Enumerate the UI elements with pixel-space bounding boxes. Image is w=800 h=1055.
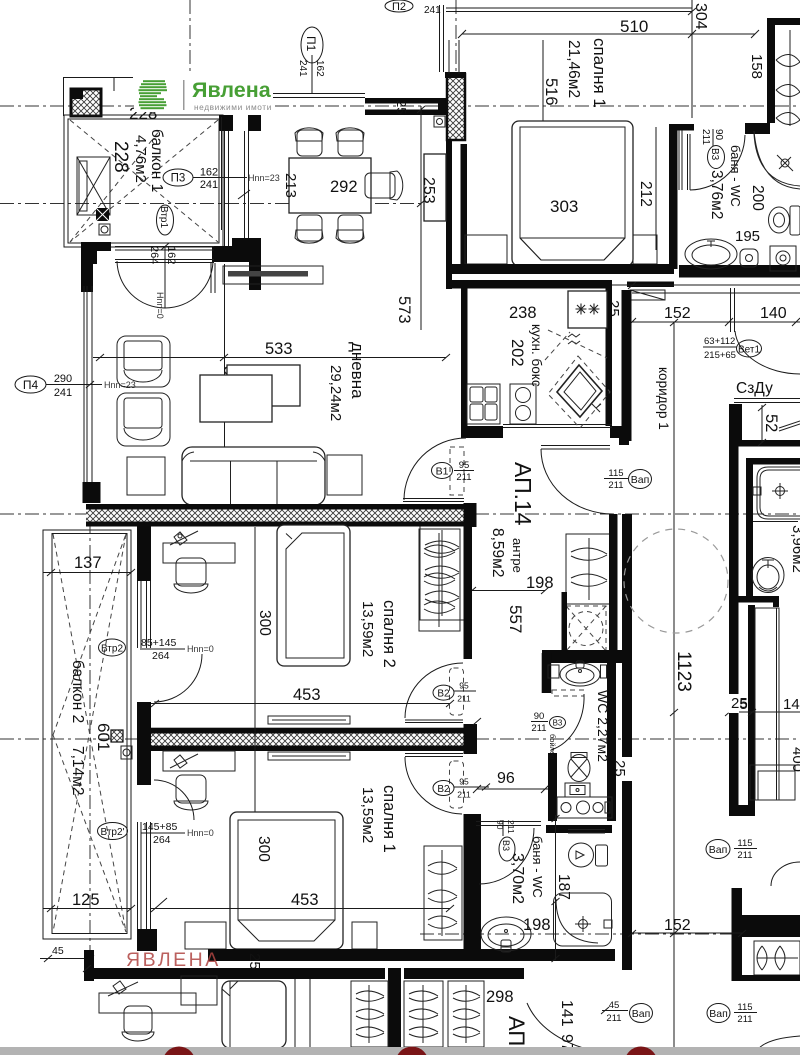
bedroom1 west wall strip <box>461 144 468 272</box>
szdu top double line <box>734 399 800 403</box>
armchair 2 <box>117 393 170 446</box>
corridor shoe shelf <box>630 290 665 300</box>
door B2 bedroom2 dashed leaf <box>450 668 464 715</box>
balcony1 outer rect <box>64 115 223 247</box>
Vet1 ellipse <box>737 340 762 357</box>
cap above hatch band <box>445 72 466 78</box>
svg-text:спалня 2: спалня 2 <box>380 600 398 668</box>
hatched wall band vertical top <box>447 74 465 140</box>
П4 ellipse <box>15 376 46 393</box>
shaft tall rect <box>755 608 779 800</box>
bathtub faucet <box>776 487 785 496</box>
svg-text:45: 45 <box>609 1000 620 1011</box>
svg-text:96: 96 <box>497 770 515 787</box>
sideboard inner bar <box>228 271 308 277</box>
lower bed fold <box>222 981 238 1048</box>
band2 bottom border <box>150 746 464 752</box>
dining east wall strip <box>446 140 452 289</box>
svg-text:Вап: Вап <box>709 844 728 856</box>
svg-text:П1: П1 <box>304 36 318 52</box>
antre wardrobe left <box>420 526 464 620</box>
band2 fill <box>150 734 464 746</box>
bath bottom wall <box>679 265 800 278</box>
lower wardrobe C <box>448 981 484 1047</box>
svg-text:211: 211 <box>531 723 546 734</box>
nightstand right <box>633 235 657 264</box>
dim line 198 <box>468 587 549 594</box>
svg-text:211: 211 <box>608 480 623 491</box>
svg-text:25: 25 <box>731 695 748 712</box>
tick mark on 533 mid <box>220 354 228 361</box>
wc square sink <box>565 783 590 797</box>
ticks bottom 45 line <box>83 965 91 972</box>
tick on 187 segment <box>552 898 560 905</box>
svg-text:211: 211 <box>457 790 471 800</box>
corridor top wall left piece <box>627 282 674 288</box>
cooktop 2 circles unit <box>510 384 536 424</box>
Vap ellipse right mid <box>706 840 730 859</box>
svg-text:85+145: 85+145 <box>141 637 176 649</box>
washing machine bath1 <box>770 246 796 271</box>
svg-text:115: 115 <box>608 468 623 479</box>
armchair 1 <box>117 336 170 387</box>
threshold below B1 <box>403 499 464 502</box>
kitchen west wall <box>461 288 468 426</box>
desk bedroom2 <box>163 543 235 563</box>
tick marks 453 lines left <box>151 700 167 912</box>
wall stub right of balcony top B <box>248 115 261 131</box>
svg-text:Вап: Вап <box>709 1008 728 1020</box>
svg-text:B2: B2 <box>437 784 450 795</box>
sink diamond solid <box>557 365 602 417</box>
bath2 west wall <box>746 458 753 602</box>
svg-text:241: 241 <box>424 5 441 16</box>
shower faucet <box>781 159 789 167</box>
notch 25 corridor west wall <box>622 757 633 781</box>
svg-text:Втр2': Втр2' <box>101 827 125 838</box>
svg-text:158: 158 <box>748 54 765 79</box>
bath3 threshold <box>476 822 541 826</box>
door center line <box>164 246 166 308</box>
dim vline x255 <box>254 527 256 945</box>
svg-text:Вет1: Вет1 <box>738 345 760 356</box>
bed 303 outer <box>512 121 633 266</box>
band2 left hatch square <box>111 730 123 742</box>
svg-text:200: 200 <box>749 185 766 211</box>
lower apt left wall vertical <box>84 950 94 981</box>
svg-text:187: 187 <box>555 874 572 900</box>
logo 228 occluder <box>134 74 273 112</box>
desk bedroom1 <box>163 751 235 771</box>
wardrobe bottom right <box>754 941 800 975</box>
wc east wall <box>607 653 616 821</box>
antre wardrobe left hangers <box>425 530 459 616</box>
svg-text:162: 162 <box>314 60 325 77</box>
svg-text:B2: B2 <box>437 688 450 699</box>
svg-text:162: 162 <box>200 167 218 179</box>
svg-text:95: 95 <box>459 460 470 471</box>
B1 door dashed leaf <box>450 447 464 495</box>
svg-text:СзДу: СзДу <box>736 380 773 397</box>
chair bottom right <box>336 215 364 243</box>
red circle 2 <box>396 1047 429 1055</box>
svg-text:211: 211 <box>456 472 471 483</box>
svg-text:B3: B3 <box>709 148 720 161</box>
bath3 door arc <box>479 828 534 884</box>
french door left arc <box>117 261 165 308</box>
svg-text:453: 453 <box>293 686 321 704</box>
west window bedroom1 <box>138 822 151 929</box>
nightstand bed1 left <box>185 922 226 949</box>
shower enclosure arc <box>754 131 800 189</box>
Yavlena logo stripes <box>139 80 168 109</box>
gray band bottom <box>0 1047 800 1055</box>
shower faucet bath3 <box>575 916 612 932</box>
big entry door arc lower <box>527 1003 621 1053</box>
hob symbols <box>576 304 600 315</box>
П1 leader vertical <box>311 55 313 93</box>
svg-text:B3: B3 <box>553 719 563 728</box>
wc sink <box>560 661 600 686</box>
svg-text:304: 304 <box>692 3 709 30</box>
svg-text:B1: B1 <box>436 466 449 478</box>
fridge 4sq unit <box>467 384 500 424</box>
corner wall block dining SW <box>232 238 261 290</box>
Vtr2 ellipse <box>99 639 126 656</box>
svg-text:95: 95 <box>459 681 469 691</box>
svg-text:балкон 1: балкон 1 <box>148 129 165 192</box>
dim vlines lower <box>295 979 310 1048</box>
svg-text:211: 211 <box>737 850 752 861</box>
svg-text:21,46м2: 21,46м2 <box>565 40 582 98</box>
sofa inner lines <box>182 452 325 505</box>
hatched pier block top-left <box>71 89 101 116</box>
svg-text:3,96м2: 3,96м2 <box>789 525 800 573</box>
bed 303 inner mattress <box>520 127 625 260</box>
band1 right cap <box>464 503 477 527</box>
svg-text:баня - WC: баня - WC <box>728 145 743 207</box>
bath3 top wall <box>546 825 612 833</box>
svg-text:52: 52 <box>762 414 780 432</box>
svg-text:Hnn=0: Hnn=0 <box>187 828 214 838</box>
exterior double line above hatch <box>440 5 460 74</box>
lift shaft cross <box>77 157 110 215</box>
wc toilet <box>568 753 590 782</box>
svg-text:601: 601 <box>94 723 113 751</box>
B3 ellipse wc <box>550 717 566 729</box>
dim line 125 <box>43 905 135 912</box>
svg-text:63+112: 63+112 <box>704 336 735 347</box>
svg-text:211: 211 <box>506 820 516 834</box>
svg-text:211: 211 <box>606 1013 621 1024</box>
balcony1 inner line <box>68 119 219 243</box>
svg-text:Втр2: Втр2 <box>101 644 123 655</box>
lower bed <box>222 981 286 1048</box>
balcony2 inner rect <box>52 534 127 934</box>
radiator bedroom1 <box>268 752 350 760</box>
hatch band1 bottom border <box>86 522 470 527</box>
wall above wc <box>542 650 632 663</box>
svg-text:125: 125 <box>72 891 100 909</box>
red circle 3 <box>625 1047 658 1055</box>
svg-text:Вап: Вап <box>631 474 650 486</box>
bath2 top wall <box>746 458 800 465</box>
svg-text:Вап: Вап <box>632 1008 651 1020</box>
svg-text:спалня 1: спалня 1 <box>590 38 609 108</box>
dim line 360 vertical <box>224 264 226 505</box>
svg-text:115: 115 <box>737 838 752 849</box>
svg-text:198: 198 <box>526 574 554 592</box>
wc door dashed leaf <box>552 690 584 696</box>
svg-text:510: 510 <box>620 17 648 36</box>
bath west wall <box>669 124 678 269</box>
nightstand bed1 right <box>352 922 377 949</box>
bidet bath1 <box>740 249 758 267</box>
dim 212 line <box>655 127 657 250</box>
svg-text:298: 298 <box>486 988 514 1006</box>
svg-text:115: 115 <box>737 1002 752 1013</box>
dim line 152-140 <box>628 318 800 326</box>
Vap fraction 115/211 <box>604 478 628 480</box>
balcony2 dashed X <box>53 534 126 932</box>
wall stub balcony SE <box>212 246 233 262</box>
Втр1 ellipse rotated <box>157 205 174 235</box>
wc door arc <box>551 694 584 750</box>
window double line dining west <box>222 117 249 240</box>
svg-text:Hnn=0: Hnn=0 <box>155 292 165 319</box>
bath door arc <box>690 135 745 190</box>
bedroom1 top window double line <box>446 8 692 12</box>
dim line 510 <box>458 30 759 38</box>
toilet bath1 <box>769 206 800 235</box>
bottom wall right column <box>732 975 800 981</box>
centerline vertical x190 top <box>189 0 191 78</box>
svg-text:211: 211 <box>737 1014 752 1025</box>
lower wardrobe B <box>404 981 443 1047</box>
Vap ellipse lower left <box>630 1004 653 1023</box>
lower apt top wall left <box>89 968 385 979</box>
svg-text:спалня 1: спалня 1 <box>380 785 398 853</box>
svg-text:241: 241 <box>54 387 72 399</box>
lift shaft rect with X <box>77 157 110 215</box>
svg-text:П3: П3 <box>171 173 186 185</box>
dim line 453 bedroom1 <box>151 905 454 912</box>
svg-text:573: 573 <box>395 296 413 324</box>
tv stand rect B <box>227 365 300 406</box>
svg-text:211: 211 <box>457 694 471 704</box>
centerline horizontal y739 <box>0 738 800 740</box>
wardrobe room bottom wall <box>746 123 770 134</box>
svg-text:264: 264 <box>148 246 160 264</box>
svg-text:1123: 1123 <box>673 651 694 692</box>
corridor door arc <box>541 449 613 514</box>
svg-text:140: 140 <box>783 696 800 713</box>
red circle 1 <box>163 1047 196 1055</box>
corridor east wall <box>729 404 739 816</box>
top-left exterior line <box>63 78 133 92</box>
bath3 toilet <box>568 830 608 868</box>
dining top wall hollow <box>365 98 448 115</box>
wc boiler box <box>557 797 612 818</box>
bed2 outer <box>277 525 350 666</box>
wardrobe room walls top right <box>767 18 800 123</box>
side table living <box>127 457 165 495</box>
svg-text:29,24м2: 29,24м2 <box>327 365 344 421</box>
svg-text:балкон 2: балкон 2 <box>69 660 86 723</box>
svg-text:215+65: 215+65 <box>704 350 736 361</box>
cabinet east dining <box>424 154 446 221</box>
wc west wall lower <box>548 753 557 821</box>
П3 ellipse <box>163 169 193 186</box>
living west window lines <box>84 286 92 482</box>
dim line y712 <box>725 709 800 716</box>
svg-text:13,59м2: 13,59м2 <box>359 787 376 843</box>
svg-text:141: 141 <box>558 1000 575 1027</box>
wardrobe hanger rod <box>789 30 791 126</box>
corridor west wall lower <box>622 514 632 970</box>
shaft west wall <box>562 592 568 653</box>
nightstand left <box>465 235 507 264</box>
Vap fraction right mid <box>734 848 757 850</box>
svg-text:253: 253 <box>420 177 437 204</box>
ticks on 510 line mid <box>688 8 696 15</box>
svg-text:162: 162 <box>165 246 177 264</box>
svg-text:557: 557 <box>506 605 525 633</box>
svg-text:баня - WC: баня - WC <box>530 836 545 898</box>
dining table <box>289 158 371 213</box>
wc shelf left <box>548 665 559 678</box>
chair top right <box>336 128 364 156</box>
west wall segment top <box>137 526 151 581</box>
head chair right <box>365 171 403 200</box>
svg-text:Hnn=0: Hnn=0 <box>187 644 214 654</box>
svg-text:недвижими имоти: недвижими имоти <box>194 102 272 112</box>
small wave marks <box>568 334 580 344</box>
bed1 mattress <box>238 820 335 941</box>
svg-text:90: 90 <box>713 129 724 141</box>
lower wardrobe A <box>351 981 388 1047</box>
small box with circle <box>99 224 110 235</box>
chair top left <box>295 128 323 156</box>
tv stand rect A <box>200 375 272 422</box>
door vtr2 arc bedroom2 <box>154 654 202 702</box>
Vet1 door arc <box>735 331 800 374</box>
Vet1 door jambs <box>731 288 735 332</box>
svg-text:дневна: дневна <box>348 342 367 399</box>
bathtub bottom line <box>753 521 798 523</box>
dim line 96 <box>473 785 549 793</box>
svg-text:228: 228 <box>110 141 131 173</box>
centerline horizontal y514 <box>0 513 800 515</box>
centerline horizontal y203 <box>0 203 447 205</box>
sideboard top living <box>223 266 323 284</box>
corridor dim line vertical <box>670 319 678 1048</box>
centerline horizontal y934 <box>420 933 800 935</box>
living SW corner block <box>83 482 101 503</box>
west wall segment bottom <box>137 929 157 951</box>
svg-text:211: 211 <box>700 129 711 145</box>
lift shaft narrow rect <box>79 161 87 211</box>
svg-text:3,70м2: 3,70м2 <box>509 853 526 904</box>
svg-text:140: 140 <box>760 305 787 322</box>
corridor top threshold lines <box>612 285 800 293</box>
B3 ellipse bath3 <box>499 837 515 861</box>
corridor door leaf <box>541 446 610 450</box>
svg-text:453: 453 <box>291 891 319 909</box>
svg-text:195: 195 <box>735 228 760 245</box>
door arc right mid <box>771 862 800 886</box>
svg-text:25: 25 <box>394 100 409 114</box>
B2 fraction bedroom1 <box>454 784 490 791</box>
Vap ellipse lower right <box>707 1004 730 1023</box>
notch 25 corridor east wall <box>729 694 740 713</box>
dim vline bath <box>555 815 557 960</box>
B2 ellipse bedroom1 <box>433 781 454 796</box>
band2 thresholds <box>405 720 463 757</box>
nested duct rects <box>750 765 795 800</box>
Vap fraction lower right <box>734 1012 757 1014</box>
black corner square on pier <box>71 88 83 99</box>
svg-text:25: 25 <box>246 953 263 970</box>
hatch band1 top border <box>86 504 470 510</box>
tick marks 152-140 right end <box>792 318 800 326</box>
wc west jog wall <box>542 653 552 693</box>
bed1 outer <box>230 812 343 949</box>
vent shaft dashed below wardrobe <box>566 606 606 651</box>
small black box with X <box>96 208 109 221</box>
svg-text:303: 303 <box>550 197 578 216</box>
szdu closet left wall <box>729 404 742 446</box>
B2 fraction bedroom2 <box>454 690 476 692</box>
bedroom1 bottom wall <box>208 949 615 961</box>
french door right arc <box>165 261 213 308</box>
small B box left of hatch <box>434 116 445 127</box>
dim 52 ticks <box>758 404 766 446</box>
lower desk lamp <box>108 981 138 996</box>
svg-text:533: 533 <box>265 340 293 358</box>
svg-text:264: 264 <box>153 834 171 846</box>
dim line 533 <box>93 354 450 361</box>
bath top cap left <box>669 124 694 131</box>
svg-text:АП.14: АП.14 <box>510 462 536 526</box>
svg-text:B3: B3 <box>501 840 511 851</box>
door B2 bedroom1 arc <box>405 757 462 814</box>
radiator bedroom2 <box>268 716 350 724</box>
bedroom east wall lower <box>464 814 482 960</box>
shaft wall below sink <box>748 605 755 816</box>
svg-text:292: 292 <box>330 178 358 196</box>
kitchen bottom wall left <box>461 426 503 438</box>
bathtub <box>757 467 800 519</box>
lower cabinet <box>181 976 217 1005</box>
balcony1 south L-wall <box>81 242 111 292</box>
window double line balcony east <box>225 131 229 247</box>
kitchen door threshold <box>503 425 612 428</box>
svg-text:137: 137 <box>74 554 102 572</box>
living west upper double line <box>211 263 215 293</box>
wardrobe hanger leaves <box>776 54 800 124</box>
B1 ellipse <box>432 463 453 479</box>
svg-text:коридор 1: коридор 1 <box>656 367 671 430</box>
lower desk <box>99 993 196 1013</box>
dining top window double line <box>273 94 365 98</box>
dim line 304 vertical <box>691 0 693 34</box>
svg-text:антре: антре <box>510 538 525 573</box>
door B2 bedroom2 arc <box>405 663 463 718</box>
desk lamp bedroom2 <box>170 531 198 545</box>
svg-text:WC 2,27м2: WC 2,27м2 <box>595 690 611 762</box>
svg-text:ЯВЛЕНА: ЯВЛЕНА <box>126 949 221 971</box>
